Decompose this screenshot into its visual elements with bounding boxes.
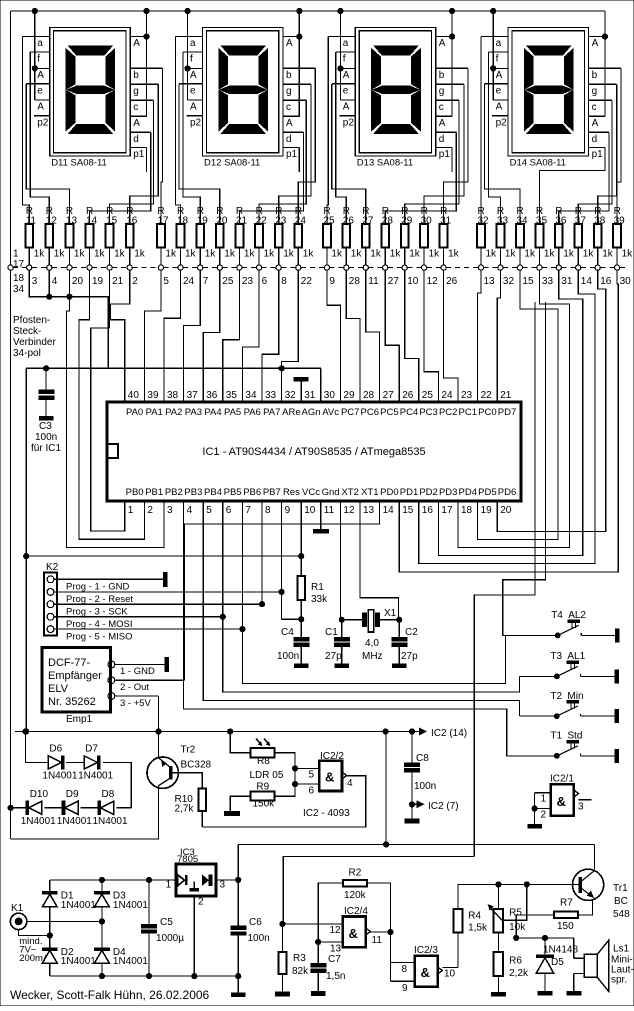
display D13 right pin rungs — [436, 36, 452, 38]
svg-text:7: 7 — [245, 505, 251, 516]
wire R7 left junction — [516, 915, 554, 938]
svg-text:d: d — [133, 134, 139, 145]
svg-text:2,2k: 2,2k — [509, 968, 529, 979]
svg-text:17: 17 — [13, 259, 25, 270]
wire R27 col to IC pin 27 — [366, 270, 380, 402]
display D11 anode wires from +5V bus — [34, 11, 36, 100]
svg-text:3 - +5V: 3 - +5V — [120, 698, 152, 709]
svg-text:13: 13 — [330, 944, 342, 955]
connector pin 5 circle — [158, 265, 163, 270]
svg-text:Empfänger: Empfänger — [48, 670, 102, 682]
wire R4 bottom to IC2/3 out — [457, 933, 459, 968]
svg-text:22: 22 — [301, 276, 313, 287]
wire R30 col to IC pin 24 — [424, 270, 438, 402]
svg-text:24: 24 — [441, 390, 453, 401]
wire IC3 pin2 to ground rail — [193, 896, 195, 976]
svg-text:A: A — [439, 38, 446, 49]
wire IC2/3 input 9 — [390, 980, 415, 982]
display D14 left pin rungs — [481, 36, 508, 38]
svg-text:34-pol: 34-pol — [13, 348, 41, 359]
svg-text:p1: p1 — [286, 149, 298, 160]
svg-text:21: 21 — [500, 390, 512, 401]
display D14 right pin rungs — [589, 36, 605, 38]
diode D4 1N4001 — [95, 948, 110, 951]
svg-text:1k: 1k — [409, 249, 421, 260]
svg-text:C6: C6 — [249, 917, 262, 928]
display D13 left pin rungs — [328, 36, 355, 38]
wire D7 to base column — [103, 762, 131, 807]
svg-text:33k: 33k — [311, 594, 328, 605]
svg-text:IC2 - 4093: IC2 - 4093 — [303, 808, 350, 819]
wire R33 col to IC pin 21 — [497, 270, 500, 402]
svg-text:12: 12 — [427, 276, 439, 287]
svg-text:A: A — [439, 118, 446, 129]
wire ARef pin32 stub — [281, 368, 283, 402]
svg-text:9: 9 — [402, 983, 408, 994]
svg-text:35: 35 — [226, 390, 238, 401]
svg-text:20: 20 — [500, 505, 512, 516]
svg-text:13: 13 — [484, 276, 496, 287]
svg-text:&: & — [421, 965, 430, 980]
resistor R9 150k — [250, 792, 274, 801]
svg-text:1N4001: 1N4001 — [93, 816, 128, 827]
svg-text:C3: C3 — [39, 421, 52, 432]
wire D6-D7 — [66, 761, 84, 763]
wire R8 to gate input 5 — [274, 753, 295, 769]
connector pin 25 circle — [217, 265, 222, 270]
svg-text:PB5: PB5 — [224, 487, 242, 498]
capacitor C1 27p — [340, 619, 364, 621]
wire R17 col to IC pin 39 — [144, 270, 161, 402]
svg-text:Prog - 5 - MISO: Prog - 5 - MISO — [66, 632, 133, 643]
svg-text:1k: 1k — [563, 249, 575, 260]
svg-text:p2: p2 — [190, 117, 202, 128]
wire bundle col x539 to IC pin 18 — [458, 270, 570, 547]
connector pin 27 circle — [383, 265, 388, 270]
svg-text:T4: T4 — [551, 610, 563, 621]
svg-text:1k: 1k — [264, 249, 276, 260]
svg-text:82k: 82k — [292, 966, 309, 977]
svg-text:34: 34 — [13, 284, 25, 295]
wire R9 left to ground — [230, 796, 250, 812]
svg-text:2 - Out: 2 - Out — [120, 682, 149, 693]
svg-text:für IC1: für IC1 — [31, 443, 61, 454]
svg-text:PD1: PD1 — [400, 487, 418, 498]
svg-text:p2: p2 — [496, 117, 508, 128]
wire display D11 seg f to resistor — [30, 52, 49, 224]
svg-text:27p: 27p — [401, 651, 418, 662]
svg-text:18: 18 — [13, 273, 25, 284]
svg-text:3: 3 — [578, 802, 584, 813]
K2 Prog-2 Reset line — [54, 591, 282, 593]
svg-text:A: A — [286, 118, 293, 129]
svg-text:Res: Res — [283, 487, 300, 498]
connector pin 26 circle — [441, 265, 446, 270]
svg-text:1: 1 — [166, 880, 172, 891]
connector pin 13 circle — [478, 265, 483, 270]
K2 Prog-4 MOSI line — [54, 616, 223, 618]
svg-text:1k: 1k — [505, 249, 517, 260]
svg-text:150: 150 — [557, 921, 574, 932]
svg-text:14: 14 — [581, 276, 593, 287]
svg-text:28: 28 — [363, 390, 375, 401]
connector pin 24 circle — [178, 265, 183, 270]
wire display D13 seg g to resistor — [424, 84, 464, 224]
svg-text:3: 3 — [32, 276, 38, 287]
svg-text:24: 24 — [183, 276, 195, 287]
svg-text:b: b — [439, 70, 445, 81]
svg-text:PA2: PA2 — [165, 407, 182, 418]
svg-text:c: c — [286, 102, 291, 113]
svg-text:1k: 1k — [303, 249, 315, 260]
svg-text:1k: 1k — [544, 249, 556, 260]
svg-text:100n: 100n — [414, 781, 436, 792]
svg-text:9: 9 — [329, 276, 335, 287]
wire IC2/3 input 8 — [390, 961, 415, 963]
svg-text:PA3: PA3 — [185, 407, 202, 418]
wire reset junction to C4 — [281, 592, 283, 619]
wire AVcc rail y368 — [26, 367, 321, 369]
svg-text:R1: R1 — [311, 582, 324, 593]
display D12 SA08-11 body — [203, 28, 284, 156]
wire +5V riser to collector line — [385, 732, 387, 845]
svg-text:AVc: AVc — [322, 407, 339, 418]
wire K2 Prog2 Reset to pin9 R1 C4 — [281, 501, 283, 593]
wire R9 to gate input 6 — [274, 784, 295, 796]
svg-text:4,0: 4,0 — [365, 638, 379, 649]
svg-text:PC7: PC7 — [341, 407, 359, 418]
svg-text:c: c — [592, 102, 597, 113]
wire pin13 line — [318, 941, 343, 943]
connector pin 1/17 left circle — [8, 265, 13, 270]
svg-text:a: a — [343, 38, 349, 49]
label IC2 (14) with arrow — [419, 728, 427, 736]
wire display D13 seg a to resistor — [327, 37, 328, 225]
IC1 AT90S4434/AT90S8535/ATmega8535 body — [107, 402, 521, 501]
svg-text:AL2: AL2 — [568, 610, 586, 621]
svg-text:1k: 1k — [448, 249, 460, 260]
connector pin 16 circle — [595, 265, 600, 270]
svg-text:MHz: MHz — [362, 651, 383, 662]
DCF pin 3 +5V — [108, 693, 115, 700]
wire +5V rail — [15, 731, 419, 733]
svg-text:8: 8 — [281, 276, 287, 287]
svg-text:p2: p2 — [37, 117, 49, 128]
svg-text:e: e — [190, 85, 196, 96]
svg-text:1k: 1k — [351, 249, 363, 260]
wire R2 left to C7 column — [318, 883, 343, 942]
svg-text:g: g — [592, 86, 598, 97]
K2 Prog-3 SCK line — [54, 603, 262, 605]
svg-text:p1: p1 — [439, 149, 451, 160]
svg-text:AGn: AGn — [301, 407, 320, 418]
svg-text:Steck-: Steck- — [13, 326, 41, 337]
wire D9-D8 — [81, 807, 101, 809]
switch T2 Min — [555, 714, 560, 719]
svg-text:1N4001: 1N4001 — [61, 900, 96, 911]
connector pin 11 circle — [363, 265, 368, 270]
svg-text:4: 4 — [52, 276, 58, 287]
svg-text:T1: T1 — [550, 731, 562, 742]
display D12 anode wires from +5V bus — [187, 11, 189, 100]
connector pin 28 circle — [344, 265, 349, 270]
switch T3 AL1 — [555, 674, 560, 679]
svg-text:5: 5 — [163, 276, 169, 287]
connector pin 12 circle — [422, 265, 427, 270]
svg-text:15: 15 — [522, 276, 534, 287]
wire display D11 seg d to resistor — [90, 132, 151, 224]
wire R31 col to IC pin 23 — [444, 270, 458, 402]
svg-text:C1: C1 — [325, 627, 338, 638]
svg-text:1N4001: 1N4001 — [113, 900, 148, 911]
svg-text:A: A — [190, 102, 197, 113]
svg-text:21: 21 — [112, 276, 124, 287]
diode D7 1N4001 — [84, 756, 97, 769]
svg-text:34: 34 — [245, 390, 257, 401]
display D11 SA08-11 body — [50, 28, 131, 156]
connector pin 3 circle — [27, 265, 32, 270]
diode D1 1N4001 — [42, 892, 57, 895]
svg-text:1k: 1k — [283, 249, 295, 260]
svg-text:A: A — [592, 38, 599, 49]
svg-text:PB0: PB0 — [126, 487, 144, 498]
wire K2 SCK to pin8 — [261, 501, 263, 603]
wire pin12 line — [282, 923, 343, 925]
svg-text:15: 15 — [402, 505, 414, 516]
svg-text:11: 11 — [324, 505, 335, 516]
wire display D14 seg d to resistor — [559, 132, 609, 224]
wire left border vertical (connector pin 1/17 feed) — [10, 11, 12, 265]
svg-text:A: A — [190, 70, 197, 81]
svg-text:1k: 1k — [429, 249, 441, 260]
wire Tr1 collector drop — [594, 844, 596, 869]
svg-text:17: 17 — [441, 505, 453, 516]
connector pin 9 circle — [324, 265, 329, 270]
svg-text:1k: 1k — [165, 249, 177, 260]
svg-text:PA4: PA4 — [204, 407, 221, 418]
svg-text:2,7k: 2,7k — [175, 804, 195, 815]
svg-text:1k: 1k — [331, 249, 343, 260]
display D14 anode wires from +5V bus — [492, 11, 494, 100]
svg-text:20: 20 — [72, 276, 84, 287]
svg-text:8: 8 — [402, 964, 408, 975]
svg-text:Wecker, Scott-Falk Hühn, 26.02: Wecker, Scott-Falk Hühn, 26.02.2006 — [10, 988, 210, 1002]
svg-text:R7: R7 — [560, 898, 573, 909]
svg-text:26: 26 — [446, 276, 458, 287]
diode D3 1N4001 — [95, 892, 110, 895]
svg-text:R2: R2 — [349, 867, 362, 878]
svg-text:1: 1 — [541, 794, 547, 805]
svg-text:1k: 1k — [602, 249, 614, 260]
connector pin 21 circle — [107, 265, 112, 270]
bridge left column — [49, 880, 51, 892]
svg-text:K1: K1 — [11, 903, 24, 914]
svg-text:1000µ: 1000µ — [156, 933, 184, 944]
svg-text:Prog - 1 - GND: Prog - 1 - GND — [66, 582, 129, 593]
wire T3 left — [520, 675, 557, 677]
svg-text:Std: Std — [567, 731, 582, 742]
diode D8 1N4001 — [101, 801, 114, 814]
wire IC pin5 to switch T2 — [203, 501, 519, 716]
wire Tr1 collector line y844 — [238, 843, 594, 845]
svg-text:PC6: PC6 — [361, 407, 379, 418]
svg-text:R8: R8 — [257, 756, 270, 767]
svg-text:27: 27 — [388, 276, 400, 287]
display D12 right pin rungs — [283, 36, 299, 38]
wire R22 col to IC pin 34 — [242, 270, 259, 402]
diode D9 1N4001 — [65, 801, 78, 814]
wire R29 col to IC pin 25 — [405, 270, 419, 402]
svg-text:PA0: PA0 — [126, 407, 143, 418]
wire gate IC2/2 output — [202, 776, 365, 827]
connector pin 31 circle — [556, 265, 561, 270]
wire R7 right to Tr1 emitter — [578, 901, 593, 916]
transistor Tr1 BC548 — [573, 869, 604, 900]
wire R18 col to IC pin 38 — [164, 270, 181, 402]
wire bundle col x617 to IC pin 15 — [399, 270, 618, 572]
svg-text:1N4001: 1N4001 — [113, 956, 148, 967]
svg-text:2: 2 — [541, 810, 547, 821]
svg-text:4: 4 — [187, 505, 193, 516]
wire display D13 seg c to resistor — [405, 100, 459, 224]
transistor Tr2 BC328 — [147, 757, 178, 788]
display D13 anode wires from +5V bus — [339, 11, 341, 100]
svg-text:&: & — [557, 794, 566, 809]
svg-text:10k: 10k — [509, 922, 526, 933]
wire pin13 XT1 to crystal right — [360, 501, 399, 620]
wire display D11 seg c to resistor — [110, 100, 154, 224]
wire T1 left — [507, 755, 557, 757]
svg-text:1N4148: 1N4148 — [543, 945, 578, 956]
svg-text:D6: D6 — [49, 743, 62, 754]
svg-text:16: 16 — [600, 276, 612, 287]
svg-text:PC5: PC5 — [380, 407, 398, 418]
svg-text:1N4001: 1N4001 — [78, 770, 113, 781]
svg-text:ARe: ARe — [282, 407, 300, 418]
svg-text:D12 SA08-11: D12 SA08-11 — [204, 158, 260, 169]
wire gnd tie line across R11-R13 columns — [29, 270, 108, 368]
svg-text:548: 548 — [613, 909, 630, 920]
resistor R6 2.2k — [497, 933, 499, 952]
svg-text:9: 9 — [285, 505, 291, 516]
svg-text:100n: 100n — [277, 651, 299, 662]
svg-text:VCc: VCc — [302, 487, 320, 498]
svg-text:D7: D7 — [85, 743, 98, 754]
wire display D13 seg b to resistor — [444, 68, 469, 224]
DCF-77 receiver Emp1 box — [42, 647, 110, 712]
svg-text:PD3: PD3 — [439, 487, 457, 498]
svg-text:PD0: PD0 — [380, 487, 398, 498]
DCF pin 2 Out — [108, 677, 115, 684]
wire Tr2 collector down to left net — [11, 786, 159, 839]
svg-text:IC2/3: IC2/3 — [414, 945, 438, 956]
wire IC pin6 to switch T3 — [223, 617, 520, 692]
display D11 right pin rungs — [130, 36, 146, 38]
wire D5 speaker line — [516, 937, 574, 939]
wire pin14 PD0 to DCF out — [185, 501, 380, 680]
svg-text:27: 27 — [383, 390, 395, 401]
svg-text:PD4: PD4 — [459, 487, 477, 498]
wire display D14 seg g to resistor — [598, 84, 617, 224]
svg-text:1k: 1k — [34, 249, 46, 260]
svg-text:Emp1: Emp1 — [66, 714, 93, 725]
connector pin 4 circle — [47, 265, 52, 270]
capacitor C3 100n — [25, 368, 27, 556]
wire display D11 seg a to resistor — [23, 37, 30, 225]
wire display D11 seg b to resistor — [161, 68, 163, 224]
svg-text:19: 19 — [92, 276, 104, 287]
wire +5V to pin10 VCC — [300, 501, 302, 556]
wire bundle col x520 to IC pin 19 — [478, 270, 558, 539]
display D14 SA08-11 body — [508, 28, 588, 156]
wire col to switch T4 upper feed — [503, 302, 546, 635]
svg-text:PA7: PA7 — [263, 407, 280, 418]
svg-text:D13 SA08-11: D13 SA08-11 — [357, 158, 413, 169]
svg-text:13: 13 — [363, 505, 375, 516]
wire display D14 seg f to resistor — [489, 52, 501, 224]
wire bundle col x559 to IC pin 17 — [438, 270, 582, 555]
svg-text:DCF-77-: DCF-77- — [48, 657, 91, 669]
speaker Ls1 — [573, 938, 575, 958]
wire R23 col to IC pin 33 — [262, 270, 279, 402]
svg-text:IC2 (14): IC2 (14) — [431, 728, 467, 739]
svg-text:25: 25 — [222, 276, 234, 287]
svg-text:Tr1: Tr1 — [613, 883, 628, 894]
svg-text:6: 6 — [309, 786, 315, 797]
svg-text:e: e — [37, 85, 43, 96]
IC pin11 GND bar — [320, 501, 322, 530]
connector pin 14 circle — [576, 265, 581, 270]
svg-text:Ls1: Ls1 — [613, 944, 630, 955]
svg-text:1k: 1k — [244, 249, 256, 260]
svg-text:10: 10 — [304, 505, 316, 516]
svg-text:PB4: PB4 — [204, 487, 222, 498]
svg-text:1N4001: 1N4001 — [42, 770, 77, 781]
connector pin 10 circle — [402, 265, 407, 270]
LDR R8 05 — [250, 748, 274, 757]
svg-text:100n: 100n — [35, 432, 57, 443]
svg-text:3: 3 — [220, 880, 226, 891]
svg-text:D5: D5 — [551, 957, 564, 968]
svg-text:XT1: XT1 — [361, 487, 378, 498]
label IC2 (7) with arrow — [412, 803, 417, 805]
wire display D12 seg g to resistor — [279, 84, 311, 224]
wire R14 col to IC pin 2 bypass — [79, 270, 144, 539]
wire riser C6 to collector line — [237, 844, 239, 880]
svg-text:Verbinder: Verbinder — [13, 337, 56, 348]
svg-text:IC1 - AT90S4434 / AT90S8535 /: IC1 - AT90S4434 / AT90S8535 / ATmega8535 — [202, 446, 425, 458]
wire R2 right to output column — [367, 883, 390, 932]
svg-text:C4: C4 — [281, 627, 294, 638]
display D11 left pin rungs — [23, 36, 50, 38]
svg-text:Prog - 3 - SCK: Prog - 3 - SCK — [66, 607, 128, 618]
wire +5V top bus — [11, 10, 605, 12]
wire +5V branch line y556 — [26, 555, 301, 557]
wire display D12 seg b to resistor — [298, 68, 315, 224]
wire K2 MISO to pin7 — [241, 501, 243, 628]
svg-text:23: 23 — [461, 390, 473, 401]
wire display D14 seg a to resistor — [480, 37, 482, 225]
svg-text:p1: p1 — [133, 149, 145, 160]
svg-text:120k: 120k — [344, 890, 367, 901]
crystal X1 4.0 MHz — [362, 613, 366, 626]
svg-text:f: f — [190, 54, 193, 65]
svg-text:100n: 100n — [248, 933, 270, 944]
svg-text:28: 28 — [349, 276, 361, 287]
svg-text:PA6: PA6 — [244, 407, 261, 418]
svg-text:R9: R9 — [256, 781, 269, 792]
connector pin 33 circle — [537, 265, 542, 270]
